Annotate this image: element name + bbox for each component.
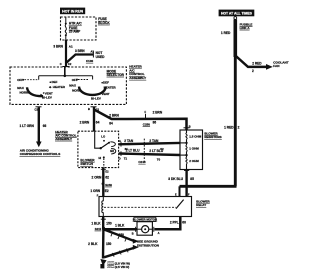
wire branch to NOT USED	[66, 49, 105, 63]
svg-text:LINK A: LINK A	[240, 26, 251, 30]
svg-text:150: 150	[106, 242, 112, 246]
svg-text:(2.5 VIN R): (2.5 VIN R)	[115, 265, 129, 269]
blower switch internals	[95, 132, 116, 168]
svg-text:2 ORN: 2 ORN	[92, 176, 102, 180]
svg-text:1.5 OHM: 1.5 OHM	[189, 134, 202, 138]
svg-text:RELAY: RELAY	[196, 203, 206, 207]
wire 2 TAN row	[119, 139, 180, 151]
pin A/C output	[35, 107, 42, 112]
heater a/c control assembly dashed box	[10, 67, 126, 104]
svg-text:62: 62	[105, 176, 109, 180]
wire 1 BLK relay coil ground	[91, 217, 111, 230]
svg-text:E2: E2	[105, 189, 109, 193]
svg-text:SELECTOR: SELECTOR	[107, 73, 125, 77]
label HEATER A/C CONTROL ASSEMBLY right	[129, 65, 147, 80]
svg-text:D: D	[119, 157, 121, 161]
fuse block label	[98, 17, 110, 25]
relay coil	[97, 194, 104, 216]
label AIR CONDITIONING COMPRESSOR CONTROLS	[20, 149, 61, 157]
wire 3 BRN fuse to control head	[53, 40, 73, 66]
svg-text:25 AMP: 25 AMP	[69, 30, 81, 34]
svg-text:3 BRN: 3 BRN	[75, 49, 85, 53]
label BLOWER RELAY	[196, 200, 210, 208]
svg-text:G108: G108	[108, 266, 115, 269]
svg-text:86: 86	[153, 120, 157, 124]
ground distribution arrow upper	[104, 230, 139, 244]
svg-text:M2: M2	[110, 149, 114, 153]
svg-text:C: C	[60, 62, 62, 66]
svg-text:A: A	[158, 231, 160, 235]
wire 1 ORN splice to relay	[90, 189, 109, 193]
svg-text:BI-LEV: BI-LEV	[42, 96, 52, 100]
left mode switch positions	[17, 80, 66, 100]
right mode switch OFF contact	[72, 78, 89, 82]
svg-text:2 BRN: 2 BRN	[80, 120, 90, 124]
svg-text:DEF: DEF	[52, 80, 58, 84]
label BLOWER RESISTORS	[204, 131, 221, 139]
svg-text:HOT AT ALL TIMES: HOT AT ALL TIMES	[221, 12, 253, 16]
resistor chain	[180, 130, 202, 170]
svg-text:BI-LEV: BI-LEV	[91, 97, 101, 101]
svg-text:MAX: MAX	[69, 83, 76, 87]
wire 3 DK BLU resistors to relay	[168, 170, 194, 197]
svg-text:C100: C100	[86, 59, 94, 63]
svg-text:84: 84	[109, 121, 113, 125]
svg-text:FAN: FAN	[273, 64, 280, 68]
wire 1 BLK motor ground	[104, 224, 154, 238]
node C2 control head feed pin	[60, 62, 72, 66]
relay contact	[104, 200, 184, 209]
svg-text:3 DK BLU: 3 DK BLU	[168, 177, 183, 181]
right mode switch positions	[69, 81, 116, 101]
fuse block dashed box	[61, 17, 97, 40]
svg-text:1 RED: 1 RED	[224, 125, 234, 129]
svg-text:E2: E2	[105, 169, 109, 173]
svg-text:A3: A3	[91, 50, 95, 54]
svg-text:COMPRESSOR CONTROLS: COMPRESSOR CONTROLS	[20, 152, 61, 156]
svg-text:71: 71	[124, 157, 128, 161]
pin B resistor feed	[184, 124, 191, 128]
svg-text:2 TAN: 2 TAN	[124, 139, 134, 143]
wire 2 LT BLU row	[119, 148, 180, 161]
svg-text:1 BLK: 1 BLK	[91, 222, 101, 226]
svg-text:1 ORN: 1 ORN	[90, 189, 100, 193]
svg-text:ASSEMBLY: ASSEMBLY	[55, 137, 73, 141]
relay pins	[101, 194, 190, 220]
blower motor label box	[133, 217, 158, 221]
header HOT IN RUN	[60, 8, 85, 15]
svg-text:64: 64	[96, 120, 100, 124]
svg-text:85: 85	[190, 177, 194, 181]
wire 2 BRN to blower switch	[80, 107, 100, 132]
svg-text:2 BRN: 2 BRN	[153, 111, 163, 115]
svg-text:2: 2	[252, 69, 254, 73]
blower switch dashed box	[78, 131, 119, 167]
label BLOWER SWITCH	[80, 159, 95, 167]
wire 1 LT GRN to compressor controls	[20, 107, 47, 147]
svg-text:B: B	[88, 107, 90, 111]
svg-text:ASSEMBLY: ASSEMBLY	[129, 76, 147, 80]
label COOLANT FAN	[273, 61, 288, 68]
ground G102 G108	[100, 259, 130, 269]
left mode switch OFF contact	[17, 78, 39, 82]
wire 2 ORN switch to relay coil	[92, 168, 110, 197]
right mode switch arc	[79, 87, 106, 95]
label HEATER A/C CONTROL ASSEMBLY lower	[55, 130, 77, 141]
svg-text:HEATER: HEATER	[53, 85, 66, 89]
label MODE SELECTOR	[107, 69, 125, 77]
svg-text:2 TAN: 2 TAN	[149, 139, 159, 143]
wire 2 BRN to blower resistors	[94, 110, 187, 131]
svg-text:70: 70	[157, 157, 161, 161]
svg-text:A1: A1	[69, 44, 73, 48]
svg-text:DEF: DEF	[103, 81, 109, 85]
svg-text:1 OHM: 1 OHM	[189, 147, 199, 151]
svg-text:C250: C250	[143, 122, 151, 126]
blower resistors box	[180, 130, 203, 170]
svg-text:2 BRN: 2 BRN	[109, 114, 119, 118]
svg-text:1 LT GRN: 1 LT GRN	[20, 124, 35, 128]
svg-text:USED: USED	[96, 55, 106, 59]
wire 1 RED feed to blower relay	[180, 57, 240, 197]
svg-text:S211: S211	[95, 227, 102, 231]
blower motor	[137, 222, 152, 236]
left mode switch arc	[27, 87, 43, 96]
svg-text:SWITCH: SWITCH	[80, 162, 93, 166]
svg-text:RESISTORS: RESISTORS	[204, 135, 221, 139]
svg-text:C2: C2	[68, 62, 72, 66]
svg-text:3 BRN: 3 BRN	[53, 44, 63, 48]
svg-text:1 RED: 1 RED	[221, 31, 231, 35]
svg-text:S249: S249	[105, 183, 112, 187]
svg-text:2 BLK: 2 BLK	[88, 242, 98, 246]
svg-text:60: 60	[182, 220, 186, 224]
svg-text:2 RED: 2 RED	[252, 62, 262, 66]
pin C2 control head blower feed	[88, 107, 100, 112]
svg-text:2 LT BLU: 2 LT BLU	[149, 149, 163, 153]
wire internal feed rail	[39, 67, 93, 80]
fuse HTR A/C 25 AMP	[65, 17, 83, 40]
svg-text:HOT IN RUN: HOT IN RUN	[62, 10, 83, 14]
svg-text:150: 150	[106, 222, 112, 226]
svg-text:B: B	[132, 231, 134, 235]
connector C248	[138, 139, 146, 164]
ground distribution arrow lower	[104, 245, 139, 257]
wire 2 RED branch to coolant fan	[235, 56, 272, 73]
connector C250	[143, 110, 163, 127]
svg-text:66: 66	[43, 124, 47, 128]
svg-text:2: 2	[238, 125, 240, 129]
svg-text:BLOWER MOTOR: BLOWER MOTOR	[133, 218, 158, 222]
svg-text:BLOCK: BLOCK	[98, 21, 110, 25]
svg-text:1 BLK: 1 BLK	[115, 224, 125, 228]
svg-text:B: B	[189, 124, 191, 128]
svg-text:2 OHM: 2 OHM	[189, 159, 199, 163]
fusible link A	[221, 17, 253, 57]
splice S249	[102, 182, 113, 187]
label SEE GROUND DISTRIBUTION	[137, 240, 160, 248]
svg-text:MAX: MAX	[17, 86, 24, 90]
blower relay box	[99, 197, 192, 217]
svg-text:DISTRIBUTION: DISTRIBUTION	[137, 243, 160, 247]
svg-text:OFF: OFF	[17, 78, 23, 82]
header HOT AT ALL TIMES	[219, 10, 255, 17]
wire 2 PPL relay to motor	[155, 217, 187, 236]
wire 2 BLK to ground	[88, 228, 111, 258]
svg-text:2 LT BLU: 2 LT BLU	[126, 148, 140, 152]
svg-text:2 PPL: 2 PPL	[170, 220, 179, 224]
splice S211	[95, 227, 105, 231]
svg-text:HI: HI	[99, 156, 102, 160]
svg-text:C248: C248	[138, 160, 146, 164]
